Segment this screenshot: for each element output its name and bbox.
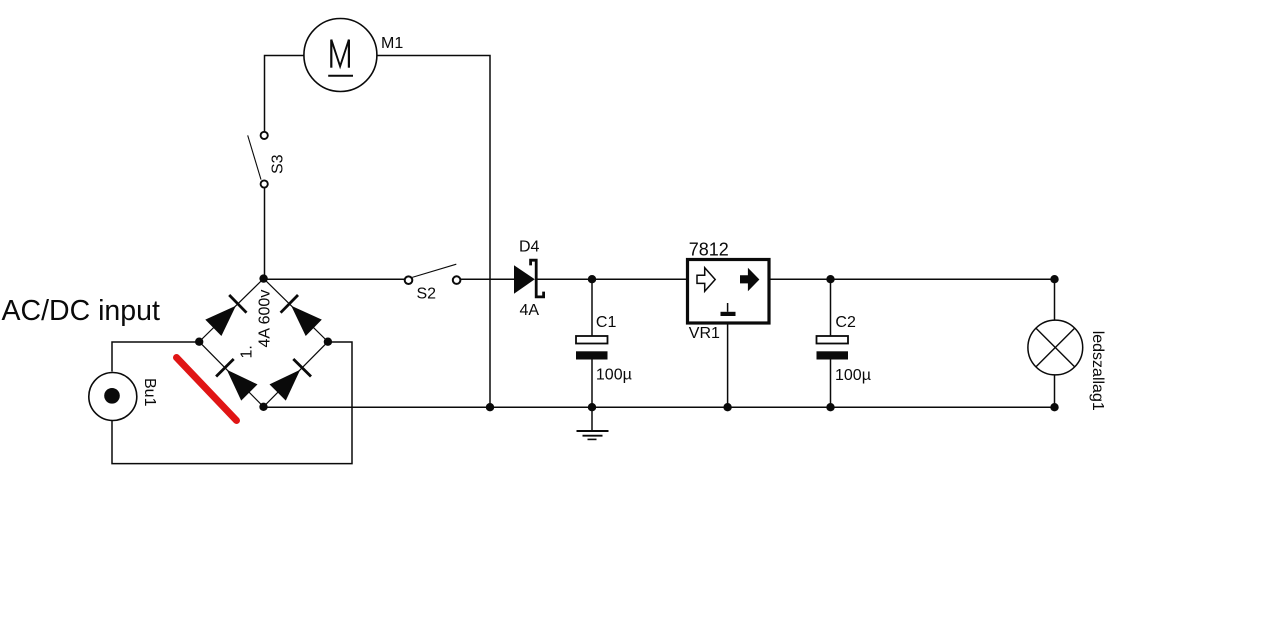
svg-text:VR1: VR1 xyxy=(689,325,720,342)
svg-text:M1: M1 xyxy=(381,35,403,52)
svg-text:4A 600v: 4A 600v xyxy=(256,290,273,348)
svg-text:S3: S3 xyxy=(269,154,286,174)
svg-text:100µ: 100µ xyxy=(835,367,871,384)
svg-text:7812: 7812 xyxy=(689,239,729,259)
svg-text:C1: C1 xyxy=(596,314,617,331)
svg-text:C2: C2 xyxy=(835,314,856,331)
svg-text:D4: D4 xyxy=(519,239,540,256)
svg-text:4A: 4A xyxy=(520,302,540,319)
svg-text:100µ: 100µ xyxy=(596,367,632,384)
svg-text:Bu1: Bu1 xyxy=(141,378,158,407)
svg-text:ledszallag1: ledszallag1 xyxy=(1089,331,1106,411)
svg-text:S2: S2 xyxy=(417,285,437,302)
svg-text:AC/DC input: AC/DC input xyxy=(2,295,160,327)
svg-text:1.: 1. xyxy=(238,345,255,358)
